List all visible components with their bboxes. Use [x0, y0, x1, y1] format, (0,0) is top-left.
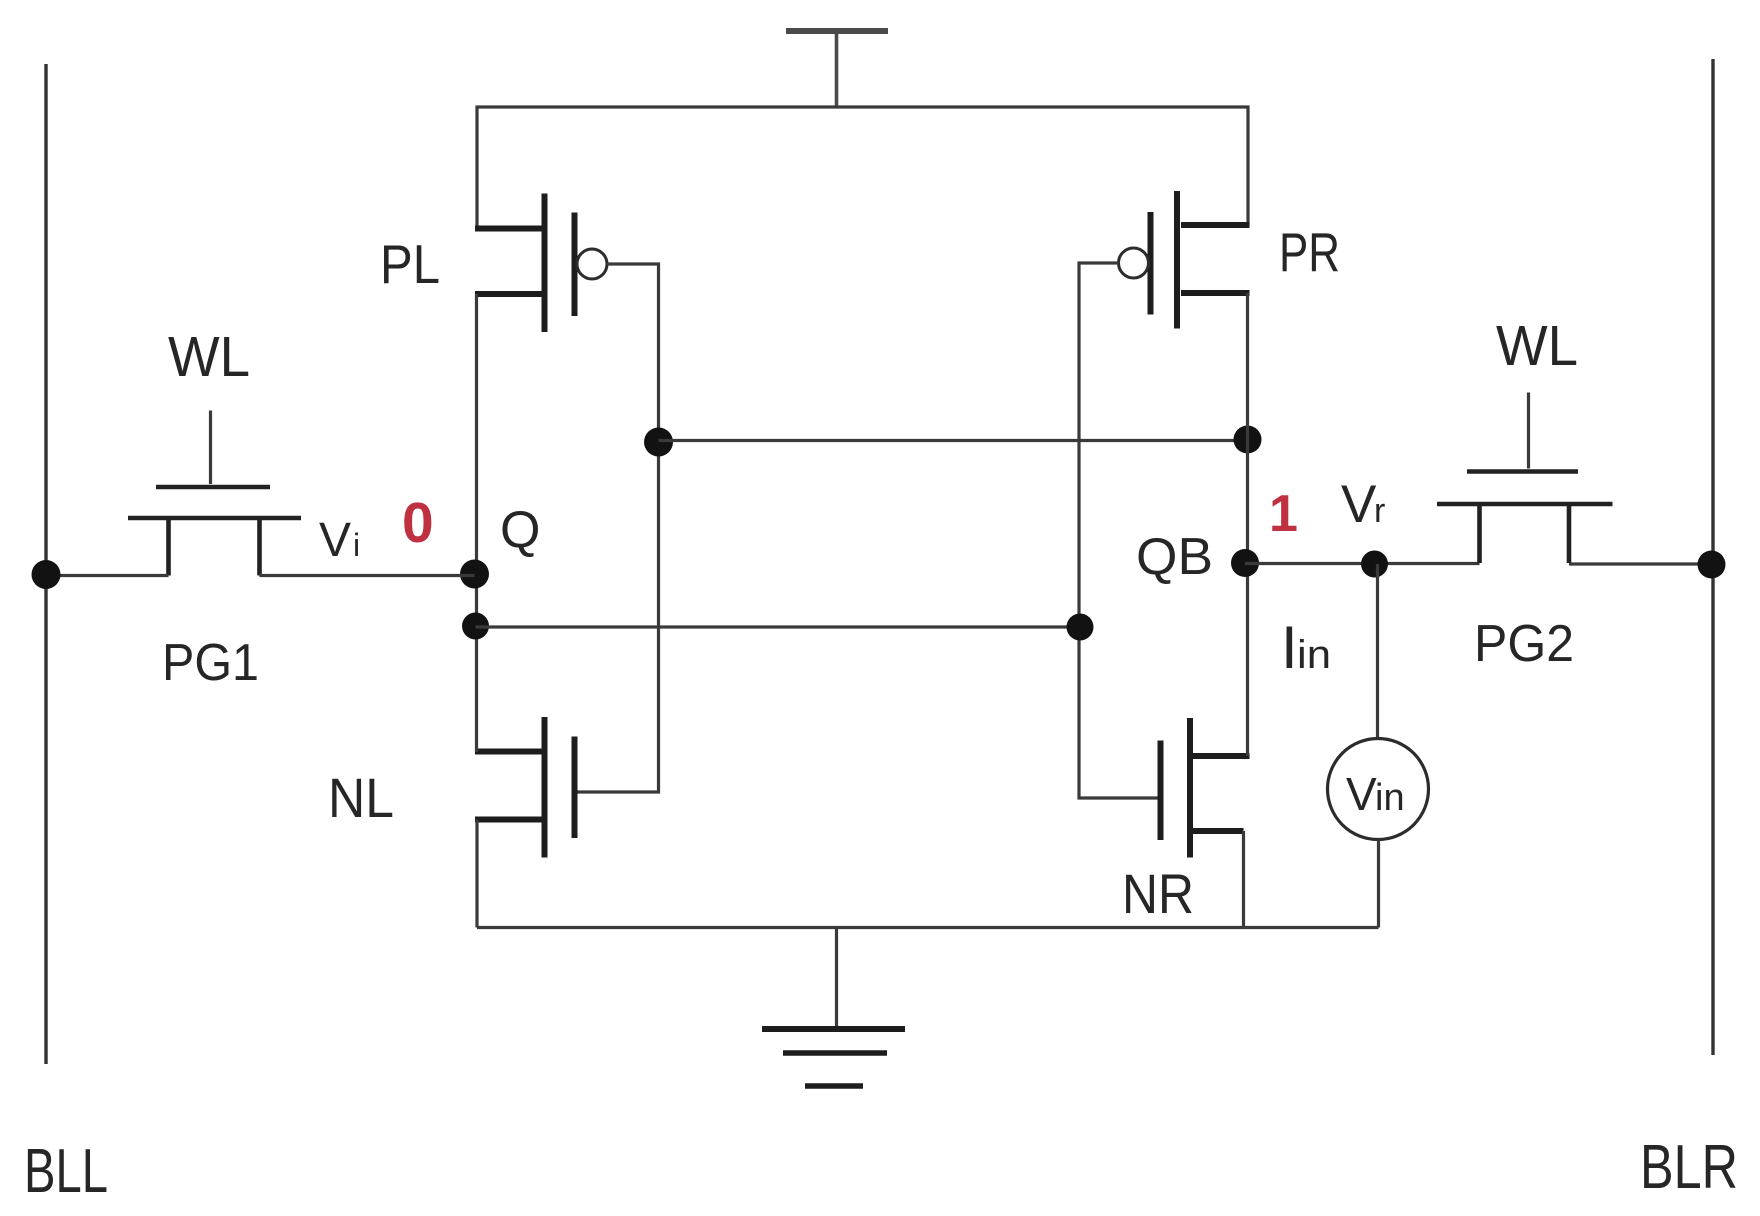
wire QB to PG2 left leg — [1245, 562, 1480, 565]
svg-text:WL: WL — [1496, 314, 1578, 378]
svg-text:QB: QB — [1136, 528, 1213, 586]
svg-text:Q: Q — [500, 501, 540, 559]
svg-text:NR: NR — [1122, 862, 1194, 925]
bit line BLR — [1711, 59, 1714, 1055]
wire PL gate to NL gate — [577, 264, 659, 792]
PMOS transistor PL — [475, 194, 607, 333]
NMOS pass transistor PG1 — [128, 411, 301, 576]
junction dot at PR drain — [1234, 426, 1262, 454]
svg-text:1: 1 — [1269, 485, 1298, 543]
junction dot Q lower — [462, 613, 489, 640]
svg-text:i: i — [353, 527, 360, 563]
junction dot on BLL — [32, 560, 61, 589]
node QB vertical wire — [1246, 293, 1249, 756]
wire BLL to PG1 — [46, 574, 169, 577]
svg-text:in: in — [1375, 777, 1405, 819]
svg-text:0: 0 — [402, 491, 434, 555]
junction dot node Q — [460, 560, 489, 589]
wire Vr to voltage source — [1376, 564, 1379, 739]
junction dot right-gate wire — [1067, 614, 1094, 641]
svg-text:in: in — [1297, 633, 1331, 677]
wire PR gate to NR gate — [1079, 263, 1158, 798]
svg-text:r: r — [1374, 492, 1385, 530]
PMOS transistor PR — [1119, 191, 1250, 329]
svg-text:PL: PL — [380, 233, 440, 295]
wire Vin to ground rail — [1377, 840, 1380, 928]
cross-coupling wire Q to right gates — [476, 625, 1081, 628]
wire left gates to node QB — [659, 439, 1248, 442]
svg-text:V: V — [1341, 475, 1377, 534]
VDD supply symbol — [786, 31, 888, 107]
junction dot node Vr — [1361, 551, 1388, 578]
wire PG1 to node Q — [260, 574, 475, 577]
NMOS transistor NR — [1161, 718, 1250, 928]
ground symbol — [762, 928, 905, 1087]
svg-text:WL: WL — [168, 325, 250, 389]
node Q vertical wire — [475, 294, 478, 752]
svg-text:PG2: PG2 — [1474, 615, 1574, 673]
svg-text:PR: PR — [1279, 221, 1340, 283]
svg-text:PG1: PG1 — [162, 634, 259, 692]
svg-text:V: V — [319, 514, 351, 567]
svg-text:BLR: BLR — [1640, 1133, 1738, 1202]
svg-text:V: V — [1346, 768, 1377, 820]
junction dot left-gate to QB wire — [644, 428, 673, 457]
svg-text:I: I — [1281, 614, 1298, 681]
ground rail — [477, 926, 1379, 929]
svg-text:BLL: BLL — [24, 1137, 108, 1206]
bit line BLL — [44, 64, 47, 1064]
NMOS transistor NL — [475, 717, 575, 928]
svg-text:NL: NL — [328, 766, 394, 829]
junction dot on BLR — [1698, 551, 1726, 579]
voltage source Vin — [1328, 739, 1429, 840]
NMOS pass transistor PG2 — [1437, 393, 1613, 564]
VDD rail wire — [477, 107, 1248, 228]
junction dot node QB — [1231, 549, 1259, 577]
wire PG2 right leg to BLR — [1569, 562, 1713, 565]
